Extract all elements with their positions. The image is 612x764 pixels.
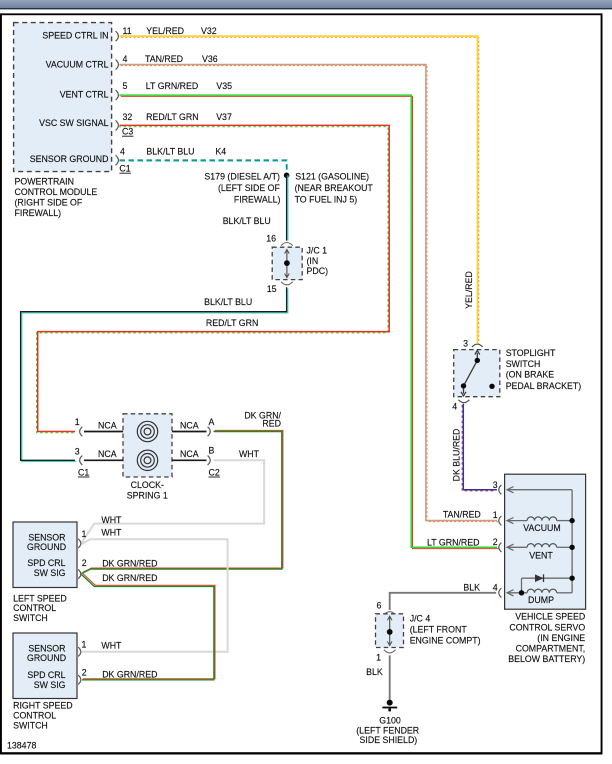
svg-text:SPD CRL: SPD CRL [27, 670, 65, 680]
svg-text:SPEED CTRL IN: SPEED CTRL IN [42, 30, 108, 40]
powertrain control module box [14, 23, 112, 172]
svg-text:LEFT SPEED: LEFT SPEED [13, 593, 67, 603]
right switch pin 2 connector [78, 675, 81, 684]
svg-text:CONTROL SERVO: CONTROL SERVO [509, 622, 585, 632]
J/C 4 caption [410, 613, 481, 645]
svg-text:VENT: VENT [529, 550, 553, 560]
svg-text:YEL/RED: YEL/RED [146, 26, 184, 36]
clockspring pin 3 connector [80, 456, 83, 465]
svg-text:YEL/RED: YEL/RED [464, 271, 474, 309]
wire BLK/LT BLU from J/C 1 pin 15 to clockspring pin 3 [21, 287, 288, 461]
svg-text:BELOW BATTERY): BELOW BATTERY) [508, 654, 585, 664]
clockspring 1 box [123, 414, 172, 477]
svg-text:6: 6 [376, 600, 381, 610]
svg-text:BLK/LT BLU: BLK/LT BLU [146, 147, 194, 157]
svg-text:(NEAR BREAKOUT: (NEAR BREAKOUT [295, 183, 374, 193]
svg-text:SW SIG: SW SIG [34, 680, 66, 690]
svg-text:DK GRN/RED: DK GRN/RED [102, 669, 157, 679]
svg-text:1: 1 [376, 652, 381, 662]
svg-text:BLK/LT BLU: BLK/LT BLU [223, 216, 271, 226]
stoplight switch node bottom [461, 383, 466, 388]
svg-text:(LEFT SIDE OF: (LEFT SIDE OF [218, 183, 281, 193]
J/C 1 internal bus [285, 250, 290, 278]
svg-text:V37: V37 [216, 112, 232, 122]
svg-text:VACUUM CTRL: VACUUM CTRL [46, 60, 109, 70]
svg-text:DK BLU/RED: DK BLU/RED [452, 429, 462, 482]
svg-text:B: B [209, 446, 215, 456]
svg-text:SWITCH: SWITCH [506, 359, 541, 369]
svg-text:CONTROL MODULE: CONTROL MODULE [15, 187, 98, 197]
svg-text:NCA: NCA [180, 420, 199, 430]
svg-text:(LEFT FENDER: (LEFT FENDER [356, 725, 419, 735]
stoplight switch pin 3 connector arc [472, 344, 483, 347]
wire DK BLU/RED from stoplight pin 4 to servo pin 3 [462, 404, 497, 491]
svg-text:SPRING 1: SPRING 1 [127, 490, 168, 500]
svg-text:(IN: (IN [307, 256, 319, 266]
svg-text:S179 (DIESEL A/T): S179 (DIESEL A/T) [204, 172, 280, 182]
svg-text:BLK: BLK [463, 582, 480, 592]
svg-text:4: 4 [452, 402, 457, 412]
servo diode junction dot [569, 576, 574, 581]
svg-text:1: 1 [82, 529, 87, 539]
svg-text:V36: V36 [202, 54, 218, 64]
svg-text:TO FUEL INJ 5): TO FUEL INJ 5) [295, 194, 358, 204]
svg-text:TAN/RED: TAN/RED [443, 510, 481, 520]
label S121 (GASOLINE) [295, 172, 374, 205]
wire BLK/LT BLU solid from S121 to J/C 1 pin 16 [287, 175, 288, 240]
svg-text:RIGHT SPEED: RIGHT SPEED [13, 701, 72, 711]
svg-text:BLK/LT BLU: BLK/LT BLU [204, 297, 252, 307]
svg-text:(IN ENGINE: (IN ENGINE [537, 633, 585, 643]
svg-text:1: 1 [493, 510, 498, 520]
wire label BLK/LT BLU K4 [146, 147, 226, 157]
svg-text:VENT CTRL: VENT CTRL [60, 90, 109, 100]
servo pin 1 connector arc [499, 516, 502, 525]
stoplight switch contact arm [461, 350, 480, 396]
J/C 1 pin 15 connector arc [281, 282, 293, 285]
svg-text:FIREWALL): FIREWALL) [15, 208, 62, 218]
servo pin 2 connector arc [499, 543, 502, 552]
svg-text:3: 3 [493, 480, 498, 490]
servo caption [508, 612, 585, 665]
svg-text:VEHICLE SPEED: VEHICLE SPEED [515, 612, 585, 622]
right switch label SPD CRL SW SIG [27, 670, 65, 690]
svg-text:SWITCH: SWITCH [13, 720, 48, 730]
svg-text:SWITCH: SWITCH [13, 613, 48, 623]
svg-text:G100: G100 [379, 715, 401, 725]
servo internal right bus [571, 490, 573, 593]
svg-text:C2: C2 [209, 467, 220, 477]
svg-text:A: A [209, 417, 215, 427]
PCM caption [15, 176, 98, 218]
servo vacuum solenoid coil [507, 517, 572, 524]
svg-text:STOPLIGHT: STOPLIGHT [506, 348, 556, 358]
svg-text:1: 1 [82, 640, 87, 650]
wire LT GRN/RED from PCM pin 5 to servo pin 2 [120, 95, 499, 548]
svg-text:CONTROL: CONTROL [13, 603, 56, 613]
left switch pin 1 connector [78, 539, 81, 548]
J/C 4 pin 6 connector arc [384, 612, 396, 615]
svg-text:SPD CRL: SPD CRL [27, 558, 65, 568]
servo dump solenoid coil [507, 589, 572, 596]
wire label TAN/RED V36 [145, 54, 218, 64]
svg-text:32: 32 [123, 112, 133, 122]
svg-text:CLOCK-: CLOCK- [131, 480, 164, 490]
right switch label SENSOR GROUND [27, 643, 66, 663]
svg-text:GROUND: GROUND [27, 653, 66, 663]
wire BLK from servo pin 4 to J/C 4 pin 6 [390, 593, 497, 610]
svg-text:15: 15 [267, 284, 277, 294]
svg-text:WHT: WHT [101, 528, 122, 538]
wire label LT GRN/RED V35 [146, 81, 232, 91]
stoplight switch box [454, 350, 500, 397]
junction connector J/C 1 box [272, 247, 302, 279]
svg-text:DK GRN/RED: DK GRN/RED [102, 573, 157, 583]
svg-text:NCA: NCA [98, 420, 117, 430]
right switch caption [13, 701, 72, 731]
svg-text:WHT: WHT [101, 641, 122, 651]
clockspring NCA stub wires row 2 [84, 459, 207, 461]
svg-text:SENSOR: SENSOR [28, 643, 65, 653]
ground G100 symbol [382, 700, 397, 712]
wire DK GRN/RED from left switch pin 2 to right switch pin 2 [82, 573, 216, 679]
svg-text:J/C 4: J/C 4 [410, 613, 431, 623]
stoplight switch node right [489, 384, 494, 389]
clockspring pin 1 connector [80, 427, 83, 436]
left switch label SPD CRL SW SIG [27, 558, 65, 578]
svg-text:2: 2 [82, 558, 87, 568]
connector label C3 [122, 127, 134, 137]
wire label DK GRN/RED at pin A [244, 411, 281, 429]
connector label C2 clockspring [209, 467, 221, 477]
PCM pin 4 connector row5 [116, 155, 119, 165]
left switch pin 2 connector [78, 570, 81, 579]
wire WHT from clockspring pin B to left switch pin 1 [82, 460, 265, 543]
wire label RED/LT GRN V37 [146, 112, 232, 122]
svg-text:V35: V35 [216, 81, 232, 91]
wire label YEL/RED V32 [146, 26, 216, 36]
J/C 1 internal junction dot [284, 260, 290, 266]
svg-text:WHT: WHT [239, 449, 260, 459]
svg-text:2: 2 [493, 537, 498, 547]
svg-text:5: 5 [123, 81, 128, 91]
stoplight switch pin 4 connector arc [459, 400, 470, 403]
svg-text:RED/LT GRN: RED/LT GRN [206, 318, 258, 328]
wire YEL/RED from PCM pin 11 to stoplight switch [120, 36, 479, 344]
svg-text:NCA: NCA [98, 449, 117, 459]
vehicle speed control servo box [505, 474, 586, 609]
servo dump junction dot [519, 590, 524, 595]
svg-text:ENGINE COMPT): ENGINE COMPT) [410, 636, 481, 646]
clockspring coil upper [137, 421, 157, 441]
svg-text:RED: RED [262, 419, 281, 429]
svg-text:SIDE SHIELD): SIDE SHIELD) [360, 735, 418, 745]
clockspring pin A connector [208, 427, 211, 436]
svg-text:K4: K4 [215, 147, 226, 157]
svg-text:PEDAL BRACKET): PEDAL BRACKET) [506, 381, 582, 391]
PCM pin 5 connector row3 [116, 90, 119, 100]
svg-text:TAN/RED: TAN/RED [145, 54, 183, 64]
svg-text:POWERTRAIN: POWERTRAIN [15, 176, 74, 186]
right speed control switch box [13, 633, 77, 699]
wire BLK/LT BLU dashed segment from PCM pin 4 to S121 [120, 160, 288, 175]
right switch pin 1 connector [78, 647, 81, 656]
left speed control switch box [13, 522, 77, 588]
ground G100 caption [356, 715, 419, 745]
servo vent solenoid coil [507, 544, 572, 551]
svg-text:DUMP: DUMP [528, 595, 554, 605]
svg-text:(ON BRAKE: (ON BRAKE [506, 370, 555, 380]
svg-text:NCA: NCA [180, 449, 199, 459]
svg-text:CONTROL: CONTROL [13, 711, 56, 721]
svg-text:S121 (GASOLINE): S121 (GASOLINE) [295, 172, 369, 182]
svg-text:BLK: BLK [366, 667, 383, 677]
servo pin 3 internal wire [507, 487, 572, 493]
svg-text:3: 3 [75, 447, 80, 457]
svg-text:4: 4 [493, 582, 498, 592]
wire BLK from J/C 4 pin 1 to G100 [389, 655, 391, 699]
svg-text:LT GRN/RED: LT GRN/RED [427, 537, 479, 547]
svg-text:(LEFT FRONT: (LEFT FRONT [410, 625, 468, 635]
splice S121 junction dot [284, 173, 290, 179]
connector label C1 clockspring [78, 467, 90, 477]
wire DK GRN/RED from clockspring pin A to left switch pin 2 [82, 430, 283, 573]
svg-text:3: 3 [463, 338, 468, 348]
connector label C1 [119, 164, 130, 174]
clockspring caption [127, 480, 168, 500]
svg-text:2: 2 [82, 667, 87, 677]
PCM pin 4 connector row2 [116, 60, 119, 70]
svg-text:C3: C3 [122, 127, 133, 137]
J/C 4 pin 1 connector arc [384, 650, 396, 653]
svg-text:LT GRN/RED: LT GRN/RED [146, 81, 198, 91]
svg-text:COMPARTMENT,: COMPARTMENT, [516, 643, 586, 653]
PCM pin 32 connector row4 [116, 120, 119, 130]
svg-text:FIREWALL): FIREWALL) [234, 194, 281, 204]
servo diode branch [522, 574, 573, 592]
stoplight switch caption [506, 348, 582, 391]
stoplight switch node top [475, 358, 480, 363]
svg-text:J/C 1: J/C 1 [307, 245, 328, 255]
svg-text:11: 11 [123, 26, 132, 36]
svg-text:SENSOR: SENSOR [28, 532, 65, 542]
servo pin 4 connector arc [499, 588, 502, 597]
svg-text:V32: V32 [201, 26, 217, 36]
J/C 1 pin 16 connector arc [281, 243, 293, 246]
svg-text:(RIGHT SIDE OF: (RIGHT SIDE OF [15, 197, 83, 207]
svg-text:VACUUM: VACUUM [523, 523, 560, 533]
svg-text:DK GRN/RED: DK GRN/RED [102, 559, 157, 569]
left switch caption [13, 593, 67, 623]
clockspring coil lower [137, 450, 157, 470]
svg-text:C1: C1 [119, 164, 130, 174]
svg-text:RED/LT GRN: RED/LT GRN [146, 112, 198, 122]
left switch label SENSOR GROUND [27, 532, 66, 552]
servo junction dot vent [569, 545, 574, 550]
wire TAN/RED from PCM pin 4 to servo pin 1 [120, 65, 499, 522]
svg-text:SENSOR GROUND: SENSOR GROUND [30, 154, 109, 164]
svg-text:VSC SW SIGNAL: VSC SW SIGNAL [39, 118, 109, 128]
svg-text:SW SIG: SW SIG [34, 568, 66, 578]
clockspring pin B connector [208, 456, 211, 465]
svg-text:4: 4 [120, 147, 125, 157]
svg-text:C1: C1 [78, 467, 89, 477]
svg-text:GROUND: GROUND [27, 542, 66, 552]
svg-text:PDC): PDC) [307, 266, 329, 276]
servo pin 3 connector arc [499, 485, 502, 494]
junction connector J/C 4 box [376, 614, 404, 648]
J/C 1 caption [307, 245, 329, 276]
J/C 4 internal bus [387, 616, 392, 645]
svg-text:1: 1 [75, 417, 80, 427]
svg-text:16: 16 [266, 233, 276, 243]
wire WHT from left switch pin 1 to right switch pin 1 [82, 539, 228, 652]
servo junction dot vacuum [569, 518, 574, 523]
label S179 (DIESEL A/T) [204, 172, 280, 205]
wire RED/LT GRN from PCM pin 32 to clockspring pin 1 [37, 125, 390, 432]
PCM pin 11 connector [116, 31, 119, 41]
svg-text:WHT: WHT [101, 515, 122, 525]
clockspring NCA stub wires row 1 [84, 431, 207, 433]
svg-text:138478: 138478 [7, 741, 36, 751]
svg-text:4: 4 [123, 54, 128, 64]
J/C 4 internal junction dot [387, 629, 393, 635]
